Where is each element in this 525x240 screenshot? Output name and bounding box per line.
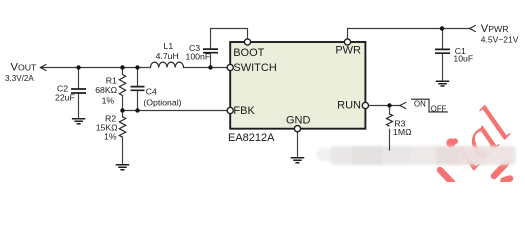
watermark lower strokes: [440, 163, 510, 183]
svg-text:1MΩ: 1MΩ: [393, 127, 412, 137]
pin SWITCH: [227, 64, 233, 70]
ground for C1: [436, 81, 450, 86]
svg-text:10uF: 10uF: [453, 54, 473, 64]
svg-text:VPWR: VPWR: [481, 23, 509, 35]
svg-text:1%: 1%: [104, 131, 117, 141]
blurred watermark mosaic bar: [317, 146, 516, 165]
VPWR arrowhead: [470, 25, 476, 32]
node C3/switch: [208, 65, 212, 69]
capacitor C2 plates: [71, 89, 86, 93]
pin GND: [294, 126, 300, 132]
svg-text:ON: ON: [414, 100, 426, 109]
ground for R2: [116, 165, 130, 170]
pin RUN: [362, 102, 368, 108]
svg-text:RUN: RUN: [337, 100, 361, 112]
component value labels: [55, 41, 473, 141]
capacitor C1 plates: [435, 49, 450, 53]
svg-text:(Optional): (Optional): [143, 98, 181, 108]
VOUT arrowhead: [41, 64, 47, 71]
svg-text:VOUT: VOUT: [11, 62, 38, 74]
wire C3 branch and BOOT loop: [211, 29, 248, 68]
svg-text:GND: GND: [286, 114, 311, 126]
watermark red italic text: [437, 97, 523, 183]
svg-text:FBK: FBK: [233, 105, 255, 117]
node FBK R1/R2: [120, 108, 124, 112]
pin PWR: [344, 39, 350, 45]
pin BOOT: [244, 39, 250, 45]
svg-text:SWITCH: SWITCH: [233, 62, 276, 74]
svg-text:4.5V~21V: 4.5V~21V: [481, 34, 519, 44]
capacitor C4 plates: [131, 87, 145, 91]
wire R3 branch: [389, 106, 391, 151]
pin labels: [228, 45, 361, 144]
pin FBK: [227, 107, 233, 113]
wire C2 branch: [78, 68, 80, 118]
svg-text:4.7uH: 4.7uH: [156, 51, 179, 61]
ON/OFF arrowhead: [400, 102, 406, 109]
svg-text:22uF: 22uF: [55, 93, 75, 103]
node C4/rail: [135, 65, 139, 69]
ground for IC GND pin: [291, 158, 305, 163]
svg-text:PWR: PWR: [335, 45, 361, 57]
wire R2 branch: [122, 111, 124, 165]
resistor R3 zigzag: [387, 114, 393, 126]
wire C4 branch: [137, 68, 139, 111]
ON/OFF step symbol: [411, 99, 448, 112]
svg-text:3.3V/2A: 3.3V/2A: [5, 74, 34, 83]
resistor R1 zigzag: [119, 75, 125, 96]
watermark i dot: [446, 138, 455, 147]
svg-text:1%: 1%: [102, 95, 115, 105]
svg-text:R1: R1: [106, 76, 117, 86]
svg-text:EA8212A: EA8212A: [228, 132, 275, 144]
node VPWR C1: [440, 26, 444, 30]
wire FBK net: [123, 110, 227, 112]
svg-text:100nF: 100nF: [186, 52, 211, 62]
node FBK C4: [135, 108, 139, 112]
ground for C2: [72, 119, 86, 124]
node R1/rail: [120, 65, 124, 69]
wire PWR to VPWR rail: [348, 29, 470, 39]
wire inductor to switch: [184, 67, 227, 69]
wire R1 branch: [122, 68, 124, 111]
svg-text:OFF: OFF: [431, 104, 447, 113]
svg-text:L1: L1: [164, 41, 174, 51]
svg-text:BOOT: BOOT: [233, 47, 264, 59]
wire C1 branch: [442, 29, 444, 81]
node C2/rail: [76, 65, 80, 69]
wire GND pin down: [297, 132, 299, 157]
inductor L1: [151, 62, 184, 67]
resistor R2 zigzag: [119, 117, 125, 137]
svg-text:68KΩ: 68KΩ: [95, 85, 117, 95]
wire RUN net: [369, 105, 400, 107]
IC U1 EA8212A body: [230, 42, 365, 129]
svg-text:C4: C4: [146, 86, 157, 96]
pin circles: [227, 39, 368, 132]
capacitor C3 plates: [203, 49, 218, 53]
wire VOUT main rail: [41, 67, 151, 69]
node RUN R3: [387, 103, 391, 107]
